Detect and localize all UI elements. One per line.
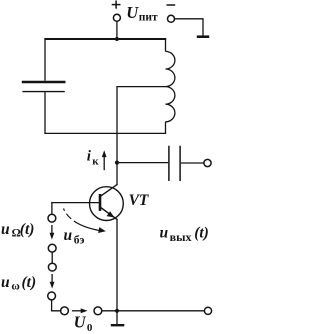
terminal: source chain circle 3 [48, 263, 56, 271]
wire: coupling capacitor to output terminal [181, 162, 204, 164]
svg-text:пит: пит [139, 11, 158, 23]
wire: top supply rail [44, 38, 166, 40]
wire: rail down to tank capacitor [44, 38, 46, 80]
svg-text:u: u [160, 225, 169, 242]
arrow: u_ω direction (down) [51, 274, 53, 283]
wire: junction to ground [116, 311, 118, 324]
ground (top right) [197, 35, 209, 38]
terminal: source chain circle 1 [48, 214, 56, 222]
transistor VT: envelope circle [90, 187, 124, 221]
wire: circle 4 down and right [52, 300, 61, 311]
plus sign of supply terminal [112, 1, 121, 9]
terminal: U0 right circle [94, 307, 102, 315]
inductor L: winding arcs [166, 51, 175, 121]
terminal: source chain circle 2 [48, 244, 56, 252]
current arrow i_к [103, 156, 105, 171]
svg-text:вых: вых [170, 230, 192, 244]
inductor L: bottom stub [165, 122, 167, 134]
inductor L (tapped coil): top stub [165, 38, 167, 51]
svg-text:U: U [74, 313, 87, 332]
wire: tank capacitor down to loop bottom [44, 92, 46, 134]
svg-text:u: u [1, 221, 10, 238]
transistor VT: base bar [99, 194, 102, 211]
wire: base corner down to source chain [51, 202, 53, 214]
transistor VT: collector stroke [100, 184, 118, 196]
wire: between circle 2 and 3 [51, 252, 53, 263]
terminal: U0 left circle [61, 307, 69, 315]
svg-text:(t): (t) [20, 221, 35, 238]
capacitor C (coupling) right plate [179, 146, 181, 181]
wire: + terminal to rail [116, 21, 118, 38]
node: emitter junction dot [115, 309, 119, 313]
wire: coil tap to collector node [117, 87, 166, 185]
svg-text:0: 0 [87, 322, 93, 334]
svg-text:(t): (t) [194, 225, 209, 242]
terminal: source chain circle 4 [48, 292, 56, 300]
terminal: output (bottom) [204, 307, 211, 314]
wire: bottom of tank loop [44, 132, 166, 134]
arrow u_бэ (curved, dash-dot start) [64, 209, 102, 231]
capacitor C (tank, left) bottom plate [22, 91, 64, 93]
capacitor C (coupling) left plate [168, 146, 170, 181]
svg-text:VT: VT [129, 192, 149, 209]
wire: base lead [51, 202, 100, 204]
arrow: u_Ω direction (down) [51, 225, 53, 234]
svg-text:u: u [1, 274, 10, 291]
svg-text:u: u [64, 227, 73, 244]
svg-text:бэ: бэ [74, 234, 85, 246]
capacitor C (tank, left) top plate [22, 81, 66, 83]
node: collector junction dot [115, 161, 119, 165]
svg-text:U: U [126, 3, 139, 22]
minus sign of supply terminal [167, 4, 176, 6]
ground (bottom) [111, 324, 125, 326]
terminal: −Uпит supply [168, 15, 175, 22]
wire: − terminal to ground [175, 19, 203, 36]
transistor VT: emitter stroke with arrow [100, 207, 118, 220]
svg-text:(t): (t) [22, 274, 37, 291]
terminal: +Uпит supply [113, 14, 120, 21]
wire: emitter lead down [116, 220, 118, 311]
svg-text:ω: ω [11, 280, 19, 292]
terminal: output (top) [204, 159, 211, 166]
wire: collector node to coupling capacitor [117, 162, 168, 164]
node: + terminal on rail (junction dot) [115, 37, 119, 41]
wire: bottom rail to output [102, 310, 205, 312]
arrow: U0 direction (right) [72, 310, 82, 312]
svg-text:к: к [92, 155, 99, 167]
